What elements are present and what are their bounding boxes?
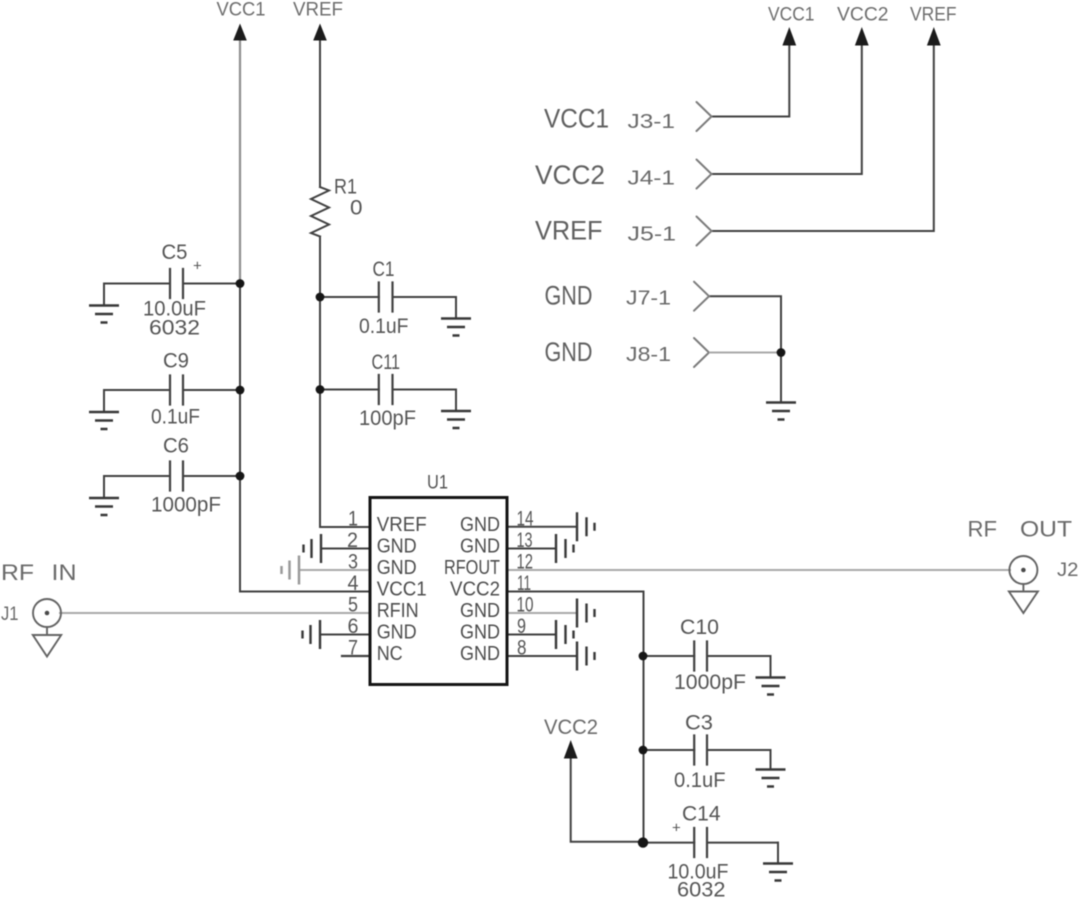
svg-text:J3-1: J3-1 [628, 111, 676, 133]
svg-text:GND: GND [460, 643, 500, 665]
svg-text:GND: GND [460, 622, 500, 644]
svg-text:C5: C5 [162, 241, 188, 264]
svg-text:VCC1: VCC1 [544, 104, 609, 134]
svg-text:C6: C6 [163, 435, 189, 458]
svg-text:GND: GND [460, 536, 500, 558]
svg-text:3: 3 [348, 551, 358, 574]
svg-text:VCC1: VCC1 [217, 0, 266, 21]
svg-text:0.1uF: 0.1uF [359, 315, 409, 338]
svg-text:VREF: VREF [910, 5, 957, 26]
svg-text:R1: R1 [334, 176, 357, 199]
svg-text:C14: C14 [682, 803, 721, 826]
svg-text:12: 12 [517, 551, 534, 574]
svg-text:IN: IN [52, 560, 77, 585]
svg-text:1000pF: 1000pF [151, 494, 221, 517]
svg-text:14: 14 [517, 508, 534, 531]
svg-text:RF: RF [1, 560, 34, 585]
svg-text:C11: C11 [372, 351, 401, 374]
svg-text:2: 2 [347, 529, 358, 552]
svg-text:+: + [672, 820, 681, 837]
svg-text:+: + [193, 258, 202, 275]
svg-text:J8-1: J8-1 [626, 344, 671, 366]
svg-text:VCC2: VCC2 [544, 715, 598, 739]
svg-text:VCC2: VCC2 [450, 579, 500, 601]
svg-text:C3: C3 [685, 712, 713, 735]
svg-text:6032: 6032 [149, 317, 200, 340]
svg-text:C1: C1 [373, 258, 395, 281]
svg-text:VREF: VREF [377, 514, 427, 536]
svg-text:0: 0 [350, 197, 363, 220]
svg-text:J5-1: J5-1 [628, 224, 677, 246]
svg-text:VCC2: VCC2 [535, 160, 605, 190]
svg-text:0.1uF: 0.1uF [151, 406, 200, 429]
svg-text:J1: J1 [1, 604, 19, 625]
svg-text:4: 4 [348, 572, 359, 595]
svg-text:5: 5 [348, 594, 358, 617]
svg-text:OUT: OUT [1020, 517, 1072, 542]
svg-text:VCC2: VCC2 [837, 5, 889, 26]
svg-text:1000pF: 1000pF [674, 671, 746, 694]
svg-text:0.1uF: 0.1uF [674, 769, 726, 792]
svg-text:GND: GND [377, 557, 417, 579]
svg-text:J4-1: J4-1 [628, 168, 676, 190]
svg-text:J7-1: J7-1 [626, 288, 671, 310]
svg-text:9: 9 [517, 615, 526, 638]
svg-text:C10: C10 [680, 616, 719, 639]
svg-text:RF: RF [968, 517, 998, 542]
svg-text:1: 1 [348, 508, 358, 531]
svg-text:VREF: VREF [535, 216, 603, 246]
svg-text:13: 13 [517, 529, 533, 552]
svg-text:VREF: VREF [293, 0, 343, 21]
svg-text:8: 8 [517, 637, 527, 660]
svg-text:J2: J2 [1057, 560, 1079, 581]
svg-text:GND: GND [460, 600, 500, 622]
svg-text:RFIN: RFIN [377, 600, 419, 622]
svg-text:GND: GND [545, 281, 593, 311]
svg-text:C9: C9 [163, 350, 189, 373]
svg-text:GND: GND [377, 536, 417, 558]
svg-text:6032: 6032 [677, 879, 726, 899]
svg-text:VCC1: VCC1 [768, 5, 815, 26]
svg-text:11: 11 [517, 572, 531, 595]
svg-text:10: 10 [517, 594, 534, 617]
svg-text:VCC1: VCC1 [377, 579, 427, 601]
svg-text:7: 7 [348, 637, 358, 660]
svg-text:100pF: 100pF [359, 407, 416, 430]
svg-text:6: 6 [348, 615, 359, 638]
svg-text:NC: NC [377, 643, 403, 665]
svg-text:GND: GND [460, 514, 500, 536]
svg-text:RFOUT: RFOUT [444, 557, 500, 579]
svg-text:U1: U1 [427, 473, 448, 494]
svg-text:GND: GND [545, 337, 593, 367]
svg-text:GND: GND [377, 622, 417, 644]
